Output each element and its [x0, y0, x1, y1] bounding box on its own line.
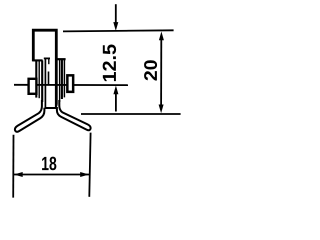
dim 18 right arrowhead [80, 172, 89, 177]
right splayed leg [57, 100, 91, 130]
left leg line C [41, 60, 43, 102]
right leg line E [59, 59, 61, 102]
dim 20 top arrowhead [159, 32, 164, 41]
dim text 20 [144, 60, 157, 80]
left step [32, 59, 42, 61]
center cap [45, 107, 58, 109]
right leg line G [63, 59, 65, 97]
dim 20 line [160, 40, 162, 106]
dim 12.5 lower arrow shaft [115, 94, 117, 112]
dim text 18 [42, 157, 56, 171]
left splayed leg [15, 100, 44, 132]
inner hook stub [48, 58, 50, 64]
inner hook bar [44, 57, 50, 59]
right leg line F [61, 59, 63, 99]
dim 18 line [14, 174, 89, 176]
left lug [29, 79, 37, 94]
top extension line [63, 30, 174, 31]
left leg line B [38, 60, 40, 98]
plane line [14, 84, 128, 86]
dim 20 bottom arrowhead [159, 105, 164, 114]
dim 12.5 upper arrow shaft [115, 4, 117, 23]
18 right extension line [89, 133, 90, 197]
dim 12.5 upper arrowhead [113, 22, 118, 31]
inner jaw line [48, 72, 50, 85]
bottom extension line [81, 113, 181, 115]
clip body (top box) [33, 30, 56, 107]
dim 12.5 lower arrowhead [113, 86, 118, 95]
right lug [67, 75, 73, 92]
18 left extension line [12, 135, 14, 198]
right step bar [55, 58, 65, 60]
left leg line D [44, 58, 46, 108]
left leg line A [35, 60, 37, 97]
dim 18 left arrowhead [14, 172, 23, 177]
dim text 12.5 [103, 45, 116, 82]
